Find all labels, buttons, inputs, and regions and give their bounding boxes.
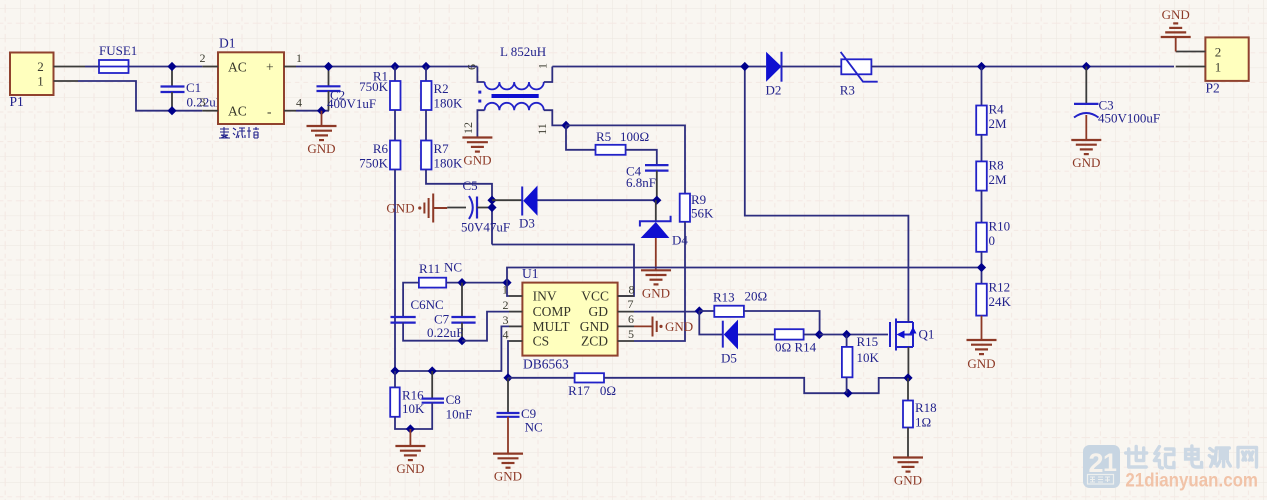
svg-text:GND: GND [1072,155,1100,170]
junction R15 top [842,330,851,339]
wire R3 to P2 [871,66,1174,68]
secondary winding [485,103,544,110]
svg-text:NC: NC [525,420,543,435]
svg-text:6: 6 [628,312,634,326]
wire R4-R8 [981,135,983,162]
svg-text:DB6563: DB6563 [523,357,569,372]
junction MULT/C8 [428,366,437,375]
wire rail to pin 6 [477,67,484,83]
svg-text:5: 5 [628,327,634,341]
wire VCC node to pin 8 [492,245,634,297]
pin P2-2 [1176,51,1206,53]
connector P2 [1205,37,1248,81]
svg-text:1Ω: 1Ω [915,415,931,430]
pin D1-1 [284,66,296,68]
svg-text:GND: GND [463,153,491,168]
svg-text:R4: R4 [989,102,1005,117]
junction feedback node [977,263,986,272]
wire D1-1 to rail [296,66,477,68]
junction C5 node [487,203,496,212]
wire R11 right [446,282,507,284]
svg-text:0: 0 [989,233,996,248]
svg-text:3: 3 [503,313,509,327]
wire GD [634,311,699,313]
ground under R12 [967,340,997,354]
wire COMP [462,312,509,341]
svg-text:10nF: 10nF [446,407,473,422]
pin 12 to ground [477,110,484,137]
svg-text:4: 4 [296,95,302,109]
svg-text:6: 6 [465,64,479,70]
wire pin11 to R5 [566,125,596,149]
transistor Q1 [890,319,913,351]
core bar [492,94,539,98]
svg-text:2: 2 [1215,45,1222,60]
svg-text:1: 1 [1103,449,1117,477]
svg-text:VCC: VCC [581,289,609,304]
svg-text:8: 8 [629,283,635,297]
wire source [907,347,909,378]
zener diode D4 [655,200,657,221]
svg-text:D5: D5 [721,351,737,366]
svg-text:R13: R13 [713,290,735,305]
fuse FUSE1 [99,60,129,73]
svg-text:11: 11 [535,123,549,135]
pin 11 wire [544,110,566,125]
svg-text:2: 2 [200,51,206,65]
svg-text:1: 1 [296,51,302,65]
junction C1 bottom [167,106,176,115]
resistor R15 [846,335,848,347]
pin U1-5 [618,340,634,342]
svg-text:50V47uF: 50V47uF [461,220,510,235]
svg-text:750K: 750K [359,156,389,171]
pin P1-1 [54,80,79,82]
svg-text:GND: GND [665,319,693,334]
diode D2 [766,52,781,82]
wire pin11 to R9 column [566,125,685,193]
junction R1 top [390,62,399,71]
ground under R16 [395,446,425,460]
svg-text:CS: CS [533,334,550,349]
svg-text:GND: GND [642,285,670,300]
junction drain tap [740,62,749,71]
junction C2 top [324,62,333,71]
label rectifier bridge text [219,127,259,138]
svg-text:750K: 750K [359,79,389,94]
junction CS node [503,373,512,382]
svg-text:4: 4 [503,328,509,342]
junction C4/D4 node [652,196,661,205]
wire fuse to C1 [129,66,203,68]
resistor R8 [976,161,987,190]
svg-text:180K: 180K [434,156,464,171]
pin U1-1 [509,295,522,297]
svg-text:C6NC: C6NC [411,297,444,312]
svg-text:2M: 2M [989,172,1008,187]
pin P1-2 [54,66,86,68]
svg-text:R2: R2 [434,81,449,96]
svg-text:C8: C8 [446,392,461,407]
svg-text:2M: 2M [989,116,1008,131]
ground under C3 [1071,140,1101,154]
svg-text:10K: 10K [402,401,425,416]
pin U1-7 [618,311,634,313]
bridge rectifier D1 [218,52,284,124]
svg-text:1: 1 [536,63,550,69]
svg-text:L 852uH: L 852uH [500,44,546,59]
wire R6 down to MULT node [394,170,396,372]
svg-text:7: 7 [628,297,634,311]
wire R2 to R7 [425,110,427,141]
svg-text:GND: GND [1162,7,1190,22]
svg-text:12: 12 [461,122,475,134]
wire R11 left to C6 [403,283,419,317]
junction INV node [502,278,511,287]
diode D3 [492,199,522,201]
pin U1-2 [509,311,522,313]
svg-text:D3: D3 [519,216,535,231]
svg-text:P2: P2 [1206,81,1220,96]
svg-text:450V100uF: 450V100uF [1098,111,1160,126]
svg-text:FUSE1: FUSE1 [99,43,137,58]
svg-text:21dianyuan.com: 21dianyuan.com [1125,470,1258,492]
svg-text:-: - [267,104,272,119]
svg-text:D1: D1 [219,36,236,51]
capacitor C7 [461,283,463,317]
wire to R4 [981,67,983,106]
junction MULT/R16 [390,366,399,375]
IC U1 DB6563 [522,283,617,356]
wire R13 right [744,311,820,335]
capacitor C4 [645,164,669,166]
junction R11/C7 top [457,278,466,287]
resistor R11 [419,278,446,288]
wire R12 to ground [981,316,983,340]
wire drain from rail [745,67,909,323]
wire R7 to VCC node [426,170,492,245]
svg-text:GND: GND [386,201,414,216]
ground under pin 12 [462,138,492,152]
power port GND at pin 6 [634,325,653,327]
resistor R10 [976,223,987,252]
svg-text:COMP: COMP [533,304,571,319]
svg-text:R18: R18 [915,400,937,415]
svg-text:0Ω: 0Ω [600,383,616,398]
junction R15 bottom [843,389,852,398]
resistor R17 [508,377,575,379]
pin P2-1 [1176,66,1206,68]
svg-text:R6: R6 [373,141,389,156]
svg-text:GND: GND [580,319,609,334]
wire D4 to ground [655,238,657,270]
svg-text:R15: R15 [857,334,879,349]
resistor R14 [775,329,804,339]
wire MULT [395,326,509,371]
ground under C9 [493,454,523,468]
svg-text:R7: R7 [434,141,450,156]
capacitor C6 [391,316,416,318]
svg-text:56K: 56K [691,206,714,221]
pin U1-4 [509,340,522,342]
ground under C2 [307,126,337,140]
svg-text:D2: D2 [766,83,782,98]
pin D1-2 [202,66,218,68]
svg-text:24K: 24K [989,294,1012,309]
resistor R9 [680,194,690,222]
svg-text:C5: C5 [463,178,478,193]
polarity dots [478,91,481,94]
svg-text:400V1uF: 400V1uF [327,96,376,111]
wire R8-R10 [981,191,983,223]
svg-text:R3: R3 [840,83,855,98]
svg-text:ZCD: ZCD [581,334,608,349]
svg-text:6.8nF: 6.8nF [626,175,656,190]
junction R2 top [421,62,430,71]
svg-text:0Ω: 0Ω [775,340,791,355]
svg-text:MULT: MULT [533,319,571,334]
wire P1-1 to C1 bottom [78,81,202,111]
resistor R1 [390,81,401,110]
wire CS down [508,341,509,378]
resistor R7 [421,141,432,170]
primary winding [485,82,544,89]
resistor R2 [421,81,432,110]
resistor R13 [699,310,714,312]
junction R4 tap [977,62,986,71]
pin U1-8 [618,295,634,297]
resistor R4 [976,106,987,135]
svg-text:GND: GND [396,461,424,476]
junction R13/R14 merge [815,330,824,339]
wire R10 down [981,252,983,284]
svg-text:AC: AC [228,59,247,74]
varistor R3 [841,59,871,74]
pin D1-4 [284,110,296,112]
junction source/R18 [903,373,912,382]
svg-text:P1: P1 [10,94,24,109]
svg-text:2: 2 [1088,448,1103,478]
svg-text:GD: GD [589,304,609,319]
capacitor C2 [328,67,330,87]
wire D1-4 to C2 [296,110,329,112]
svg-text:Q1: Q1 [919,327,935,342]
wire gate [819,334,888,336]
resistor R5 [596,145,626,155]
junction C2 bottom [317,106,326,115]
pin 1 corner [544,67,553,83]
wire D2 to R3 [782,66,842,68]
junction ground node R16/C8 [406,424,415,433]
wire to D5 [699,311,723,335]
wire R16 bottom [395,417,410,429]
svg-text:R10: R10 [989,219,1011,234]
junction C3 tap [1082,62,1091,71]
svg-text:R17: R17 [568,383,590,398]
junction pin 11 node [561,121,570,130]
pin U1-6 [618,325,634,327]
wire INV node up to bus [507,268,982,283]
svg-text:AC: AC [228,104,247,119]
wire to R18 [907,378,909,401]
svg-text:2: 2 [503,298,509,312]
ground under R18 [893,458,923,472]
capacitor C5 [447,207,466,209]
ground under D4 [641,270,671,284]
wire R5 to C4 [626,150,657,165]
wire R9 to ZCD [634,222,685,341]
capacitor C9 [507,378,509,413]
resistor R12 [976,284,987,316]
svg-text:GND: GND [494,469,522,484]
svg-text:100Ω: 100Ω [620,129,649,144]
svg-text:180K: 180K [434,96,464,111]
svg-text:R14: R14 [795,340,817,355]
diode D5 [722,321,724,348]
resistor R16 [390,387,400,416]
wire C6 to bottom [403,323,462,341]
svg-text:NC: NC [444,260,462,275]
junction D3 node [487,196,496,205]
connector P1 [10,53,54,96]
junction C1 top [167,62,176,71]
svg-text:GND: GND [307,141,335,156]
svg-text:C1: C1 [186,80,201,95]
svg-text:+: + [266,59,274,74]
svg-text:1: 1 [37,74,44,89]
wire D5 to R14 [738,334,775,336]
wire INV down to pin 1 [507,283,509,296]
pin D1-3 [202,110,218,112]
capacitor C1 [171,67,173,87]
svg-text:3: 3 [200,95,206,109]
resistor R6 [390,141,401,170]
svg-text:1: 1 [1215,60,1222,75]
wire R17 to source sense [604,378,908,393]
pin U1-3 [509,325,522,327]
svg-text:R8: R8 [989,158,1004,173]
svg-text:10K: 10K [857,350,880,365]
wire R1 to R6 [394,110,396,141]
svg-text:D4: D4 [672,233,688,248]
capacitor C8 [431,371,433,399]
capacitor C3 [1085,67,1087,104]
watermark logo 21dianyuan [1083,445,1120,488]
junction gate drive split [695,306,704,315]
junction C7 bottom [457,336,466,345]
svg-text:R12: R12 [989,280,1011,295]
wire rail after transformer [552,66,766,68]
svg-text:INV: INV [533,289,557,304]
watermark text shiji dianyuan wang [1126,446,1257,468]
svg-text:0.22uF: 0.22uF [427,325,463,340]
wire C8 bottom [410,403,432,429]
svg-text:20Ω: 20Ω [745,289,768,304]
svg-text:2: 2 [37,59,44,74]
svg-text:R5: R5 [596,129,611,144]
svg-text:GND: GND [967,356,995,371]
resistor R18 [903,401,913,428]
svg-text:R11: R11 [419,261,440,276]
svg-text:GND: GND [894,473,922,488]
